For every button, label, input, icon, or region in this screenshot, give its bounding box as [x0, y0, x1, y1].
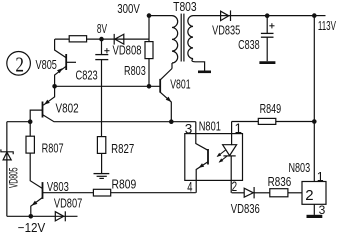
- svg-text:2: 2: [305, 187, 313, 204]
- svg-text:2: 2: [232, 179, 238, 194]
- svg-text:C823: C823: [76, 68, 98, 83]
- svg-text:V802: V802: [56, 100, 79, 115]
- svg-text:N803: N803: [288, 160, 310, 175]
- svg-text:2: 2: [15, 53, 24, 77]
- svg-text:VD808: VD808: [113, 42, 142, 57]
- svg-text:R809: R809: [112, 177, 137, 192]
- svg-text:VD836: VD836: [231, 201, 260, 216]
- svg-text:T803: T803: [173, 0, 197, 14]
- svg-text:8V: 8V: [97, 21, 107, 36]
- svg-text:VD835: VD835: [212, 23, 240, 38]
- svg-text:1: 1: [235, 121, 243, 136]
- svg-text:C838: C838: [238, 37, 260, 52]
- svg-text:V805: V805: [36, 57, 57, 72]
- svg-text:R803: R803: [124, 63, 146, 78]
- svg-text:4: 4: [187, 179, 193, 194]
- svg-text:VD807: VD807: [54, 195, 82, 210]
- svg-text:N801: N801: [199, 119, 221, 134]
- svg-text:300V: 300V: [117, 1, 140, 16]
- svg-text:R807: R807: [42, 140, 64, 155]
- svg-text:VD805: VD805: [8, 168, 20, 189]
- svg-text:R849: R849: [260, 101, 282, 116]
- svg-text:V803: V803: [47, 179, 69, 194]
- svg-text:V801: V801: [170, 76, 190, 91]
- svg-text:R836: R836: [268, 174, 292, 189]
- svg-text:113V: 113V: [318, 18, 336, 33]
- svg-text:R827: R827: [111, 141, 134, 156]
- svg-text:−12V: −12V: [18, 220, 46, 233]
- svg-text:1: 1: [317, 170, 324, 184]
- svg-text:3: 3: [319, 203, 326, 217]
- svg-text:3: 3: [185, 121, 193, 136]
